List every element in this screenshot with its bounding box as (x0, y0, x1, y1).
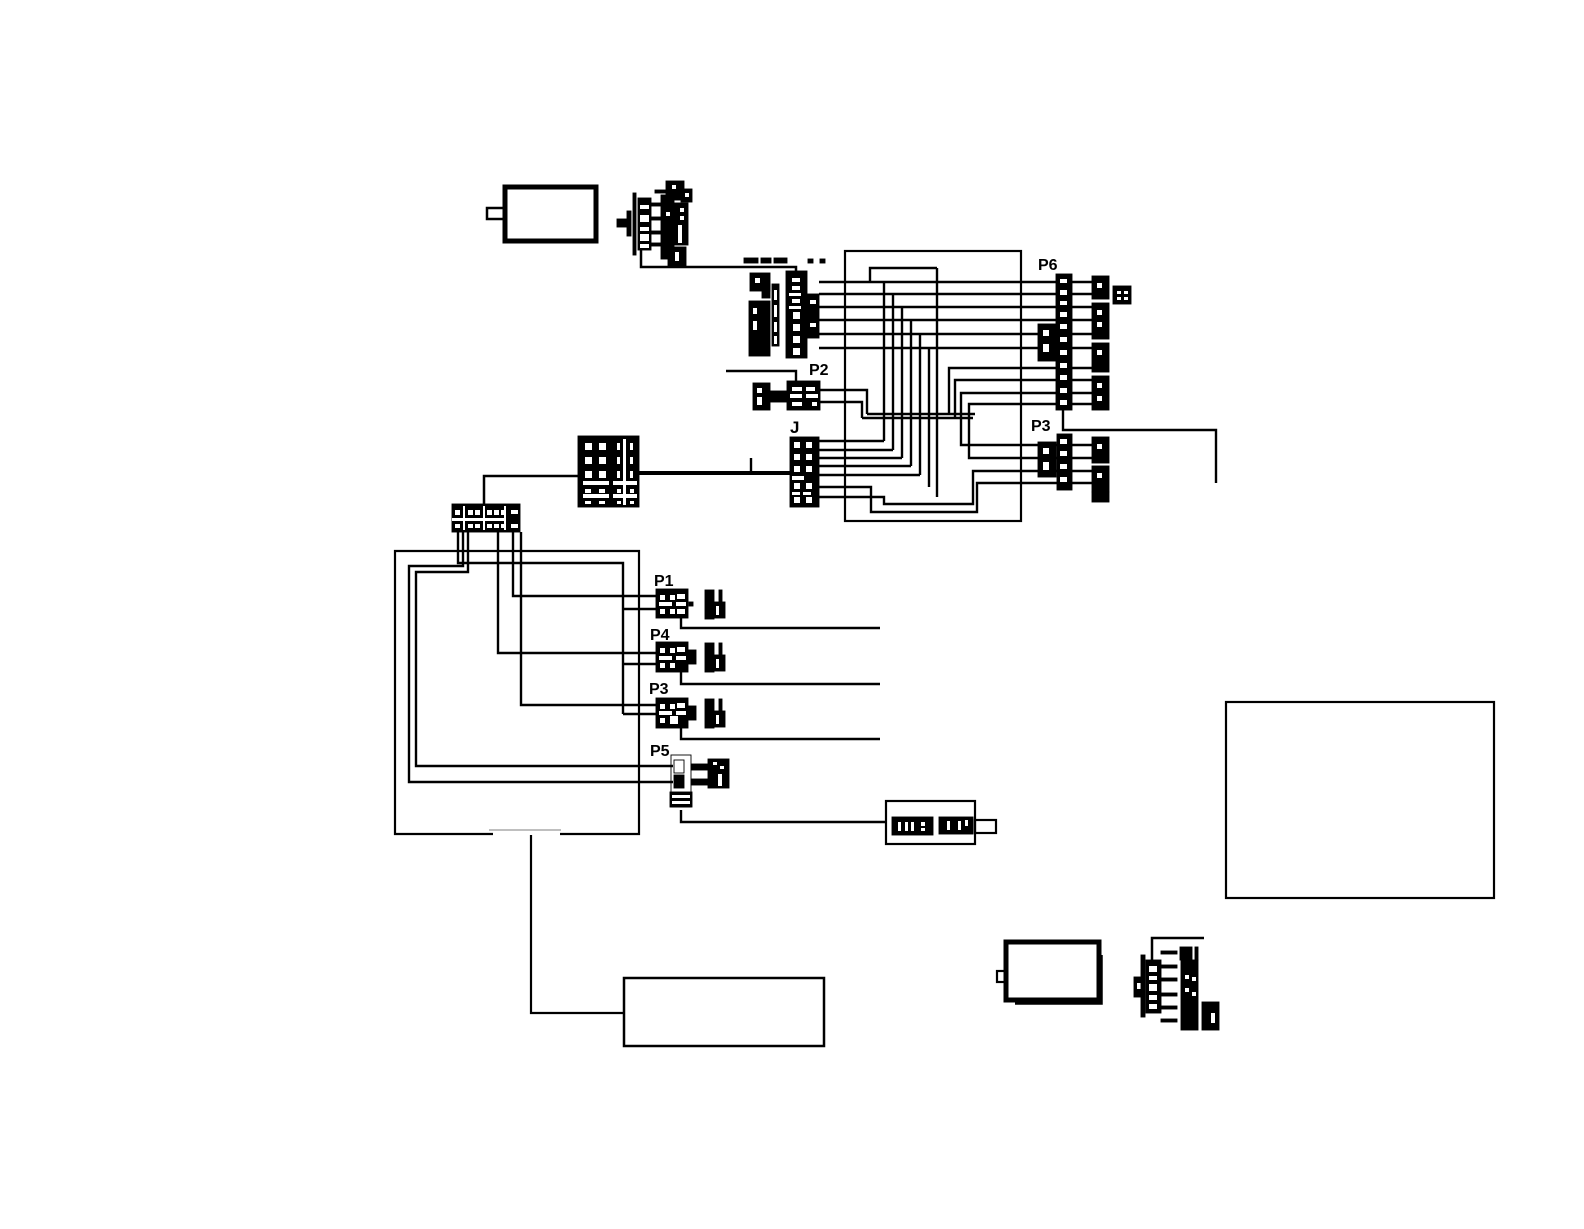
harness box H1 (center) (845, 251, 1021, 521)
svg-text:P1: P1 (654, 573, 674, 590)
box B4 (right, empty) (1226, 702, 1494, 898)
dashed text remnants above TC (744, 258, 825, 263)
component box B1 (top left) (505, 187, 596, 241)
crossover vertical 1 (883, 282, 885, 441)
thick feed wire from terminal block to J1 (639, 471, 790, 475)
connector C2 (bottom right) (1134, 947, 1219, 1030)
label E1 block (1113, 286, 1131, 304)
svg-text:P3: P3 (1031, 418, 1051, 435)
wire P2 pin1 into harness (820, 390, 867, 414)
crossover vertical 4 (910, 320, 912, 466)
crossover vertical 7 (from hop) (936, 268, 938, 497)
wire S1-3 loop to P5 upper pin (416, 532, 673, 766)
P6 mate column segments (1092, 276, 1109, 410)
connector P3 strip (right) (1057, 434, 1072, 490)
wire J1 pin1 (819, 440, 884, 442)
PCO EP MODP box (886, 801, 996, 844)
crossover vertical 2 (892, 294, 894, 450)
connector P1 (656, 589, 725, 619)
side blob left of P3 strip (1038, 442, 1056, 477)
wire stub into P2 (726, 371, 796, 382)
P4 tail wire (681, 672, 880, 684)
wire J1 pin7 staircase to P3 pin3 (819, 471, 1058, 504)
connector TC (upper left of harness) (749, 271, 819, 358)
connector P6 strip (1056, 274, 1072, 410)
wire C1 bottom to connector TC (641, 250, 796, 276)
wire TC pin2 to P6 pin2 (819, 293, 1057, 295)
faint segment of B2 bottom edge (489, 829, 561, 831)
P1 tail wire (681, 618, 880, 628)
connector P2 (753, 381, 820, 410)
connector P4 (656, 642, 725, 672)
wire TB left pin down to strip S1 (484, 476, 578, 507)
connector strip S1 (452, 504, 520, 532)
wire S1-2 loop to P5 lower pin (409, 532, 673, 782)
pin tick near J1 (750, 458, 752, 471)
bus stub to P1 pin2 (623, 608, 657, 610)
bundle riser to P6 pin7 (949, 368, 1057, 414)
wire TC pin5 to P6 pin5 (819, 333, 1057, 335)
crossover vertical 3 (901, 307, 903, 458)
wire B2 bottom to box B3 (531, 835, 624, 1013)
svg-text:J: J (790, 418, 799, 437)
bundle riser to P6 pin8 (955, 380, 1057, 418)
wire P2 pin2 into harness (820, 402, 862, 418)
wire S1-6 to P3 pin1 (521, 532, 657, 705)
P5 tail wire to PCO box (681, 810, 886, 822)
wire TC pin3 to P6 pin3 (819, 306, 1057, 308)
connector C1 (top, next to B1) (617, 181, 692, 266)
svg-text:P3: P3 (649, 681, 669, 698)
harness bundle wire A (867, 413, 975, 415)
bus stub to P3 pin2 (623, 713, 657, 715)
box B5 (bottom right) (997, 942, 1101, 1003)
P3 mate column segments (1092, 437, 1109, 502)
svg-text:P4: P4 (650, 627, 670, 644)
bundle riser to P6 pin10 and drop to P3 pin2 (969, 404, 1058, 458)
box B3 (bottom) (624, 978, 824, 1046)
wire P6 bottom to right drop (1063, 410, 1216, 483)
wire TC pin6 to P6 pin6 (819, 347, 1057, 349)
svg-text:P6: P6 (1038, 257, 1058, 274)
connector J1 (790, 437, 819, 507)
wire J1 pin3 (819, 457, 902, 459)
wire S1-4 to P4 pin1 (498, 532, 657, 653)
wire TC pin4 to P6 pin4 (819, 319, 1057, 321)
tab of box B1 (487, 208, 505, 219)
wire J1 pin4 (819, 465, 911, 467)
svg-text:P5: P5 (650, 743, 670, 760)
wire J1 pin2 (819, 449, 893, 451)
wire C2 top (1152, 938, 1204, 960)
wire J1 pin5 (819, 474, 920, 476)
bundle riser to P6 pin9 and drop to P3 pin1 (961, 393, 1058, 445)
side blob left of P6 strip (1038, 324, 1056, 361)
wire S1-1 ground bus to P1/P4/P3 second pins (458, 532, 623, 714)
crossover vertical 5 (919, 334, 921, 475)
box B2 (left harness box) (395, 551, 639, 834)
terminal block TB (578, 436, 639, 507)
connector P5 (670, 755, 729, 807)
bus stub to P4 pin2 (623, 663, 657, 665)
svg-text:P2: P2 (809, 362, 829, 379)
wire J1 pin6 staircase to P3 pin4 (819, 483, 1058, 512)
P3 tail wire (681, 728, 880, 739)
hop wire above pin1 (870, 268, 937, 282)
wire TC pin1 to P6 pin1 (819, 281, 1057, 283)
P6 right pin lines (1072, 282, 1092, 404)
connector P3 (left) (656, 698, 725, 728)
harness bundle wire B (862, 417, 973, 419)
wire S1-5 to P1 pin1 (513, 532, 657, 596)
crossover vertical 6 (928, 348, 930, 487)
P3 right pin lines (1072, 445, 1092, 483)
